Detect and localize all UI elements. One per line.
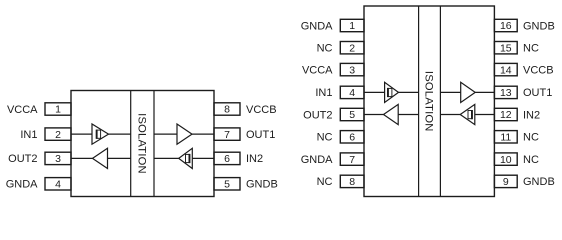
svg-text:4: 4 bbox=[349, 87, 355, 99]
pin 2 box (U2) bbox=[340, 42, 364, 54]
svg-text:16: 16 bbox=[500, 20, 512, 32]
pin 7 box (U2) bbox=[340, 153, 364, 165]
svg-text:IN2: IN2 bbox=[523, 109, 540, 121]
svg-text:GNDB: GNDB bbox=[523, 20, 555, 32]
buffer OUT1 output stage (U2) bbox=[461, 82, 476, 102]
svg-text:5: 5 bbox=[349, 109, 355, 121]
pin 6 box bbox=[214, 152, 240, 164]
wire IN1 to input buffer bbox=[71, 133, 92, 135]
svg-text:ISOLATION: ISOLATION bbox=[423, 71, 435, 132]
pin 9 box (U2) bbox=[494, 175, 517, 187]
pin 8 box (U2) bbox=[340, 175, 364, 187]
svg-text:9: 9 bbox=[503, 176, 509, 188]
svg-text:OUT2: OUT2 bbox=[8, 153, 37, 165]
wire OUT2 buffer to pin 3 bbox=[71, 157, 93, 159]
pin 10 box (U2) bbox=[494, 153, 517, 165]
pin 13 box (U2) bbox=[494, 86, 517, 98]
pin 1 box bbox=[45, 103, 71, 115]
pin 5 box (U2) bbox=[340, 108, 364, 120]
svg-text:3: 3 bbox=[55, 153, 61, 165]
svg-text:1: 1 bbox=[349, 20, 355, 32]
pin 7 box bbox=[214, 128, 240, 140]
buffer OUT2 output stage bbox=[93, 148, 108, 168]
buffer OUT2 output stage (U2) bbox=[384, 104, 399, 124]
svg-text:GNDB: GNDB bbox=[246, 179, 278, 191]
svg-text:12: 12 bbox=[500, 109, 512, 121]
pin 4 box bbox=[45, 178, 71, 190]
svg-text:GNDB: GNDB bbox=[523, 176, 555, 188]
wire barrier to OUT1 buffer (U2) bbox=[440, 91, 460, 93]
pin 8 box bbox=[214, 103, 240, 115]
svg-text:2: 2 bbox=[55, 129, 61, 141]
buffer IN2 input stage (U2, with hysteresis square) bbox=[460, 104, 475, 124]
svg-text:OUT1: OUT1 bbox=[523, 87, 552, 99]
pin 14 box (U2) bbox=[494, 63, 517, 75]
pin 6 box (U2) bbox=[340, 131, 364, 143]
svg-text:7: 7 bbox=[349, 154, 355, 166]
svg-text:NC: NC bbox=[523, 43, 539, 55]
svg-text:GNDA: GNDA bbox=[301, 20, 333, 32]
pin 11 box (U2) bbox=[494, 131, 517, 143]
wire barrier to OUT1 buffer bbox=[154, 133, 177, 135]
svg-text:OUT1: OUT1 bbox=[246, 129, 275, 141]
svg-text:VCCA: VCCA bbox=[302, 64, 333, 76]
pin 12 box (U2) bbox=[494, 108, 517, 120]
svg-text:NC: NC bbox=[523, 132, 539, 144]
isolation barrier left line (U2) bbox=[418, 6, 420, 197]
svg-text:5: 5 bbox=[224, 179, 230, 191]
wire OUT1 buffer to pin 7 bbox=[192, 133, 214, 135]
svg-text:NC: NC bbox=[317, 132, 333, 144]
buffer IN2 input stage (with hysteresis square) bbox=[179, 148, 193, 168]
svg-text:15: 15 bbox=[500, 42, 512, 54]
buffer IN1 input stage (with hysteresis square) bbox=[92, 124, 109, 144]
svg-text:VCCA: VCCA bbox=[7, 104, 38, 116]
wire OUT1 buffer to pin 13 (U2) bbox=[475, 91, 494, 93]
wire IN2 buffer to barrier bbox=[154, 157, 179, 159]
svg-text:OUT2: OUT2 bbox=[303, 109, 332, 121]
wire barrier to OUT2 buffer bbox=[108, 157, 131, 159]
svg-text:GNDA: GNDA bbox=[301, 154, 333, 166]
pin 3 box bbox=[45, 152, 71, 164]
wire pin 6 to IN2 buffer bbox=[192, 157, 214, 159]
svg-text:NC: NC bbox=[523, 154, 539, 166]
pin 5 box bbox=[214, 178, 240, 190]
isolation barrier right line (U2) bbox=[439, 6, 441, 197]
svg-text:NC: NC bbox=[317, 176, 333, 188]
wire barrier to OUT2 buffer (U2) bbox=[398, 114, 418, 116]
svg-text:IN1: IN1 bbox=[315, 87, 332, 99]
pin 16 box (U2) bbox=[494, 19, 517, 31]
op-amp U1 body (8-pin isolator package outline) bbox=[71, 91, 214, 197]
svg-text:11: 11 bbox=[500, 132, 511, 144]
buffer IN1 input stage (U2, with hysteresis square) bbox=[385, 82, 399, 102]
isolation barrier right line bbox=[153, 91, 155, 197]
pin 15 box (U2) bbox=[494, 42, 517, 54]
svg-text:GNDA: GNDA bbox=[6, 179, 38, 191]
svg-text:ISOLATION: ISOLATION bbox=[136, 113, 148, 174]
svg-text:6: 6 bbox=[224, 153, 230, 165]
svg-text:13: 13 bbox=[500, 87, 512, 99]
svg-text:IN1: IN1 bbox=[20, 129, 37, 141]
wire OUT2 buffer to pin 5 (U2) bbox=[364, 114, 384, 116]
svg-text:1: 1 bbox=[55, 104, 61, 116]
buffer OUT1 output stage bbox=[177, 124, 192, 144]
op-amp U2 body (16-pin isolator package outline) bbox=[364, 6, 494, 197]
svg-text:VCCB: VCCB bbox=[246, 104, 277, 116]
svg-text:VCCB: VCCB bbox=[523, 64, 554, 76]
pin 2 box bbox=[45, 128, 71, 140]
svg-text:10: 10 bbox=[500, 154, 512, 166]
svg-text:8: 8 bbox=[349, 176, 355, 188]
svg-text:6: 6 bbox=[349, 132, 355, 144]
svg-text:14: 14 bbox=[500, 64, 512, 76]
pin 4 box (U2) bbox=[340, 86, 364, 98]
pin 1 box (U2) bbox=[340, 19, 364, 31]
wire IN1 buffer to barrier bbox=[109, 133, 131, 135]
isolation barrier left line bbox=[130, 91, 132, 197]
svg-text:3: 3 bbox=[349, 64, 355, 76]
svg-text:2: 2 bbox=[349, 42, 355, 54]
svg-text:IN2: IN2 bbox=[246, 153, 263, 165]
wire pin 12 to IN2 buffer (U2) bbox=[475, 114, 495, 116]
pin 3 box (U2) bbox=[340, 63, 364, 75]
svg-text:4: 4 bbox=[55, 179, 61, 191]
svg-text:8: 8 bbox=[224, 104, 230, 116]
wire IN1 to input buffer (U2) bbox=[364, 91, 385, 93]
wire IN2 buffer to barrier (U2) bbox=[440, 114, 460, 116]
wire IN1 buffer to barrier (U2) bbox=[399, 91, 419, 93]
svg-text:7: 7 bbox=[224, 129, 230, 141]
svg-text:NC: NC bbox=[317, 43, 333, 55]
